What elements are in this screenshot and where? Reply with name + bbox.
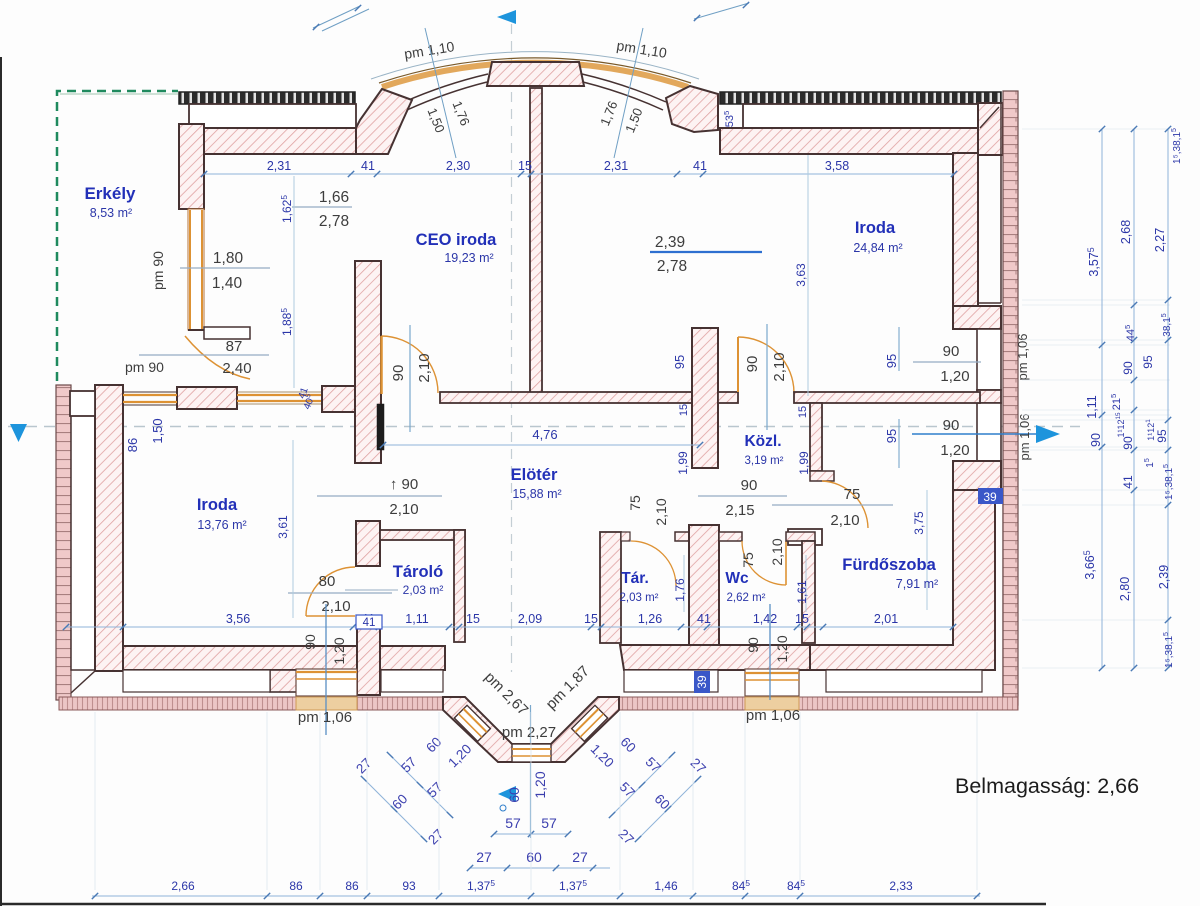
Kozl door arc (orange) <box>737 338 739 392</box>
svg-text:19,23 m²: 19,23 m² <box>444 251 493 265</box>
svg-text:1,50: 1,50 <box>150 418 165 443</box>
scan frame bottom edge <box>0 903 1046 906</box>
bay fan dims right <box>612 755 672 815</box>
svg-text:Közl.: Közl. <box>744 433 781 450</box>
svg-text:1,99: 1,99 <box>797 451 811 475</box>
svg-text:2,10: 2,10 <box>653 498 669 525</box>
svg-text:1,66: 1,66 <box>319 189 349 206</box>
svg-text:93: 93 <box>402 879 416 893</box>
svg-text:27: 27 <box>476 849 492 865</box>
bottom brick-dot band west <box>59 697 443 710</box>
svg-text:41: 41 <box>361 159 375 173</box>
svg-text:2,33: 2,33 <box>889 879 913 893</box>
right wall small pier <box>977 390 1001 403</box>
centerline bay <box>530 705 532 838</box>
fraction 1,66/2,78 <box>292 206 352 208</box>
Kozl west wall (central thick) <box>692 328 718 468</box>
svg-text:2,15: 2,15 <box>725 502 754 519</box>
wall band below window top-right <box>720 128 978 154</box>
svg-text:2,10: 2,10 <box>769 538 785 565</box>
bottom window west (orange) <box>296 669 357 696</box>
svg-text:2,27: 2,27 <box>1153 228 1167 252</box>
Wc east wall <box>802 541 815 643</box>
right margin dim column B <box>1133 129 1135 668</box>
Kozl top wall stub <box>718 392 738 403</box>
balcony door sill piece <box>204 327 250 339</box>
bathroom right wall + bottom wall L <box>810 490 995 670</box>
thin dimension arc above arch <box>371 52 699 79</box>
svg-text:2,78: 2,78 <box>319 213 349 230</box>
Wc door arc <box>742 541 786 585</box>
bay window walls (half-octagon) <box>443 697 619 762</box>
bottom wall inner step white left <box>123 670 270 692</box>
svg-text:15: 15 <box>797 406 809 418</box>
fraction 1,80/1,40 pm90 <box>180 267 270 269</box>
svg-text:1,20: 1,20 <box>774 635 790 662</box>
svg-text:2,03 m²: 2,03 m² <box>403 583 444 597</box>
svg-text:4,76: 4,76 <box>532 427 557 442</box>
svg-text:Belmagasság: 2,66: Belmagasság: 2,66 <box>955 774 1139 798</box>
svg-text:2,66: 2,66 <box>171 879 195 893</box>
interior dimension row y627 <box>66 626 953 628</box>
Tar door arc <box>631 541 676 586</box>
bay 57/57 row <box>494 833 568 835</box>
svg-text:57: 57 <box>541 815 557 831</box>
arch right springer wall <box>666 86 718 132</box>
svg-text:2,80: 2,80 <box>1118 577 1132 601</box>
arch keystone block <box>487 62 584 86</box>
arch diagonal dims 1,76 1,50 <box>425 28 456 158</box>
svg-text:86: 86 <box>125 438 140 452</box>
left wall white channel <box>71 393 95 670</box>
svg-text:2,31: 2,31 <box>267 159 291 173</box>
svg-text:39: 39 <box>695 675 709 689</box>
right margin extension lines (faint) <box>1022 128 1170 130</box>
balcony door arc <box>185 336 250 379</box>
svg-text:2,40: 2,40 <box>222 360 251 377</box>
svg-text:27: 27 <box>572 849 588 865</box>
svg-text:2,62 m²: 2,62 m² <box>727 592 766 604</box>
svg-text:1,76: 1,76 <box>673 578 687 602</box>
bottom window east (orange) <box>745 669 799 696</box>
svg-text:Tároló: Tároló <box>393 563 443 581</box>
svg-text:Tár.: Tár. <box>621 570 649 587</box>
right wall window 2 (white) <box>977 403 1001 461</box>
bathroom top wall (thin) <box>794 392 980 403</box>
Wc top wall west segment <box>719 532 742 541</box>
svg-text:39: 39 <box>983 490 997 504</box>
svg-text:15: 15 <box>678 404 690 416</box>
right wall pier between windows <box>953 306 1001 329</box>
scan frame left edge <box>0 57 2 906</box>
bottom-left corner mitre <box>71 671 95 693</box>
door leaf black (Iroda door) <box>377 404 384 450</box>
rotated dim bottom-left window 90/1,20 <box>325 604 327 735</box>
svg-text:pm 90: pm 90 <box>125 359 164 375</box>
boxed dim 41 (pillar) <box>356 615 382 629</box>
Eloter west wall (vertical) <box>355 261 381 463</box>
bay right diagonal window (orange) <box>572 705 608 741</box>
svg-text:2,01: 2,01 <box>874 612 898 626</box>
svg-text:Iroda: Iroda <box>197 496 238 514</box>
right margin dim column A <box>1101 129 1103 668</box>
svg-text:2,39: 2,39 <box>655 234 685 251</box>
svg-text:90: 90 <box>741 477 758 494</box>
corner block top-right <box>978 103 1003 155</box>
svg-text:86: 86 <box>289 879 303 893</box>
svg-text:3,61: 3,61 <box>276 515 290 539</box>
bottom wall band center-left <box>380 646 445 670</box>
Tar west wall <box>600 532 621 643</box>
window band top-right (white) <box>743 104 980 128</box>
svg-text:90: 90 <box>390 365 407 382</box>
arch left springer wall <box>356 89 412 154</box>
svg-text:15: 15 <box>584 612 598 626</box>
svg-text:60: 60 <box>506 787 522 803</box>
middle wall window 1 (orange) <box>123 394 177 396</box>
fraction 80/2,10 Tarolo door <box>288 592 392 594</box>
svg-text:2,78: 2,78 <box>657 258 687 275</box>
section arrow right (blue triangle) <box>1036 425 1060 443</box>
section arrow line right <box>912 433 1036 435</box>
svg-text:Erkély: Erkély <box>84 184 136 203</box>
svg-text:1,20: 1,20 <box>940 442 969 459</box>
svg-text:2,03 m²: 2,03 m² <box>620 592 659 604</box>
svg-text:1,42: 1,42 <box>753 612 777 626</box>
svg-text:41: 41 <box>1121 475 1135 489</box>
svg-text:2,39: 2,39 <box>1157 565 1171 589</box>
svg-text:1,11: 1,11 <box>1085 395 1099 418</box>
svg-text:1,11: 1,11 <box>405 612 428 626</box>
Tarolo top wall <box>380 530 465 540</box>
left wall brick column <box>56 385 71 700</box>
right wall upper hatched <box>953 153 978 306</box>
svg-text:75: 75 <box>627 495 643 511</box>
bottom row extension lines (faint) <box>94 712 96 890</box>
svg-text:1⁵,38,15: 1⁵,38,15 <box>1171 128 1183 164</box>
bottom wall inner step white right <box>624 670 718 692</box>
svg-text:pm 1,06: pm 1,06 <box>746 707 800 724</box>
svg-text:8,53 m²: 8,53 m² <box>90 206 132 220</box>
Tarolo east wall <box>454 530 465 642</box>
svg-text:90: 90 <box>745 637 761 653</box>
svg-text:1,20: 1,20 <box>532 771 548 798</box>
Wc top wall east segment <box>786 532 815 541</box>
Tarolo south pillar <box>357 618 380 695</box>
svg-text:2,10: 2,10 <box>830 512 859 529</box>
arched wall window curve left <box>404 74 488 102</box>
svg-text:1,40: 1,40 <box>212 275 243 292</box>
svg-text:15: 15 <box>518 159 532 173</box>
fraction 90/1,20 right window1 <box>913 361 981 363</box>
bottom brick-dot band east <box>619 697 1018 710</box>
svg-text:15,88 m²: 15,88 m² <box>512 487 561 501</box>
svg-text:24,84 m²: 24,84 m² <box>853 241 902 255</box>
orange tint on band at west window <box>296 697 357 710</box>
bathroom west wall upper <box>810 403 822 471</box>
svg-text:1,20: 1,20 <box>940 368 969 385</box>
balcony window (orange, in left wall of CEO room) <box>188 209 204 330</box>
svg-text:2,10: 2,10 <box>416 353 433 382</box>
svg-text:3,56: 3,56 <box>226 612 250 626</box>
svg-text:3,63: 3,63 <box>794 263 808 287</box>
svg-text:41: 41 <box>693 159 707 173</box>
svg-text:57: 57 <box>505 815 521 831</box>
svg-text:15: 15 <box>795 612 809 626</box>
svg-text:2,10: 2,10 <box>389 501 418 518</box>
right wall pier below windows <box>953 461 1001 490</box>
svg-text:3,75: 3,75 <box>912 511 926 535</box>
fraction 90/2,10 Eloter door <box>317 495 442 497</box>
bay 27/60/27 row <box>470 867 610 869</box>
svg-text:pm 1,06: pm 1,06 <box>1015 334 1030 381</box>
svg-text:1,80: 1,80 <box>213 250 244 267</box>
svg-text:15: 15 <box>466 612 480 626</box>
arched front wall - outer orange band <box>382 63 688 87</box>
svg-text:2,09: 2,09 <box>518 612 542 626</box>
svg-text:pm 90: pm 90 <box>150 251 166 290</box>
fraction 90/2,15 Wc <box>698 495 787 497</box>
svg-text:2,31: 2,31 <box>604 159 628 173</box>
svg-text:2,68: 2,68 <box>1119 220 1133 244</box>
Eloter top wall band (thin) <box>440 392 692 403</box>
top dimension row <box>204 173 954 175</box>
CEO east wall (thin vertical under keystone) <box>530 88 542 397</box>
boxed dim 39 (right) <box>978 488 1003 504</box>
wall block between Wc and bathroom <box>788 529 822 545</box>
section arrow left (blue triangle) <box>10 424 27 442</box>
svg-text:95: 95 <box>884 429 899 443</box>
svg-text:1,46: 1,46 <box>654 879 678 893</box>
arrow top center (blue triangle) <box>497 10 516 24</box>
bay left diagonal window (orange) <box>454 705 490 741</box>
bay fan dims left <box>390 755 450 815</box>
gap channel right of bathroom wall <box>1002 490 1004 697</box>
svg-text:95: 95 <box>1141 355 1155 369</box>
svg-text:87: 87 <box>226 338 243 355</box>
leader line Tarolo area <box>345 589 398 591</box>
svg-text:90: 90 <box>1121 436 1135 450</box>
svg-text:80: 80 <box>319 573 336 590</box>
svg-text:2,10: 2,10 <box>771 352 788 381</box>
bottom wall step block <box>270 670 297 692</box>
corner block left wall top <box>179 124 204 209</box>
balcony dashed outline (Erkely) <box>57 91 178 381</box>
fraction 2,39/2,78 (blue bar) <box>650 251 762 253</box>
svg-text:pm 1,06: pm 1,06 <box>298 709 352 726</box>
rotated door dim 90/2,10 CEO door <box>409 325 411 432</box>
svg-text:90: 90 <box>943 417 960 434</box>
svg-text:Iroda: Iroda <box>855 219 896 237</box>
bottom wall hatched band east <box>620 645 810 670</box>
bay bottom window (orange) <box>512 744 551 762</box>
line under 75 bathroom <box>772 504 893 506</box>
svg-text:1,20: 1,20 <box>331 637 347 664</box>
centerline top (dashed) <box>511 24 513 672</box>
svg-text:1,99: 1,99 <box>676 451 690 475</box>
svg-text:1,26: 1,26 <box>638 612 662 626</box>
svg-text:CEO iroda: CEO iroda <box>416 231 498 249</box>
top corner mini diagonal dims <box>313 6 360 28</box>
middle wall window 2 (orange) <box>237 394 322 396</box>
arched wall window curve right <box>582 74 666 102</box>
svg-text:75: 75 <box>740 552 756 568</box>
fraction 87/2,40 pm90 <box>139 354 269 356</box>
trellis strip top-left <box>179 92 355 104</box>
svg-text:1⁵,38,15: 1⁵,38,15 <box>1163 632 1175 668</box>
svg-text:7,91 m²: 7,91 m² <box>896 577 938 591</box>
boxed dim 39 (bottom left) <box>694 671 710 693</box>
svg-text:60: 60 <box>526 849 542 865</box>
bottom main dimension row <box>92 895 980 897</box>
top-right corner mitre <box>980 107 999 128</box>
svg-text:3,19 m²: 3,19 m² <box>745 455 784 467</box>
orange tint on band at east window <box>745 697 799 710</box>
CEO door leaf + arc (orange) <box>380 336 383 394</box>
right margin dim column C <box>1167 129 1169 668</box>
svg-text:41: 41 <box>363 617 376 629</box>
rotated dim bottom-right window 90/1,20 <box>769 604 771 700</box>
left wall hatched inner <box>95 385 123 671</box>
svg-text:95: 95 <box>1155 429 1169 443</box>
svg-text:↑ 90: ↑ 90 <box>390 476 418 493</box>
svg-text:1,61: 1,61 <box>795 580 809 604</box>
svg-text:Fürdőszoba: Fürdőszoba <box>842 556 936 574</box>
right wall window 1 (white) <box>977 329 1001 390</box>
window band top-left (white) <box>189 104 356 128</box>
central thick wall Tar/Wc <box>689 525 719 645</box>
svg-text:13,76 m²: 13,76 m² <box>197 518 246 532</box>
svg-text:1⁵,38,15: 1⁵,38,15 <box>1163 464 1175 500</box>
T-stub wall at Eloter west wall <box>322 386 357 412</box>
svg-text:3,58: 3,58 <box>825 159 849 173</box>
svg-text:Elötér: Elötér <box>511 466 558 484</box>
bathroom west wall foot <box>810 471 834 481</box>
svg-text:90: 90 <box>943 343 960 360</box>
svg-text:90: 90 <box>744 356 761 373</box>
Tarolo west wall stub <box>356 521 380 566</box>
svg-text:41: 41 <box>697 612 711 626</box>
svg-text:pm 1,06: pm 1,06 <box>1017 414 1032 461</box>
svg-text:pm 2,27: pm 2,27 <box>502 724 556 741</box>
svg-text:90: 90 <box>1089 433 1103 447</box>
svg-text:75: 75 <box>844 486 861 503</box>
arrow bottom center (blue triangle) <box>498 786 516 802</box>
svg-text:90: 90 <box>302 634 318 650</box>
bottom wall hatched band west (Iroda) <box>123 646 357 670</box>
rotated door dim 90/2,10 Kozl door <box>766 324 768 430</box>
Tar top wall east segment <box>675 532 689 541</box>
left wall cap white block <box>70 391 95 416</box>
svg-text:2,30: 2,30 <box>446 159 470 173</box>
section line A-A dashed <box>8 426 1080 428</box>
right wall gap channel lines <box>1000 104 1002 303</box>
brick veneer right column <box>1003 91 1018 705</box>
svg-text:95: 95 <box>672 355 687 369</box>
middle wall hatched block west <box>177 387 237 409</box>
svg-text:95: 95 <box>884 354 899 368</box>
trellis strip top-right <box>720 92 1001 104</box>
svg-text:Wc: Wc <box>725 570 749 587</box>
wall band below window top-left <box>203 128 356 154</box>
Eloter width dim 4,76 <box>383 444 700 446</box>
svg-text:86: 86 <box>345 879 359 893</box>
Tarolo door arc <box>306 567 355 616</box>
bathroom door arc <box>822 481 868 528</box>
svg-text:90: 90 <box>1121 361 1135 375</box>
